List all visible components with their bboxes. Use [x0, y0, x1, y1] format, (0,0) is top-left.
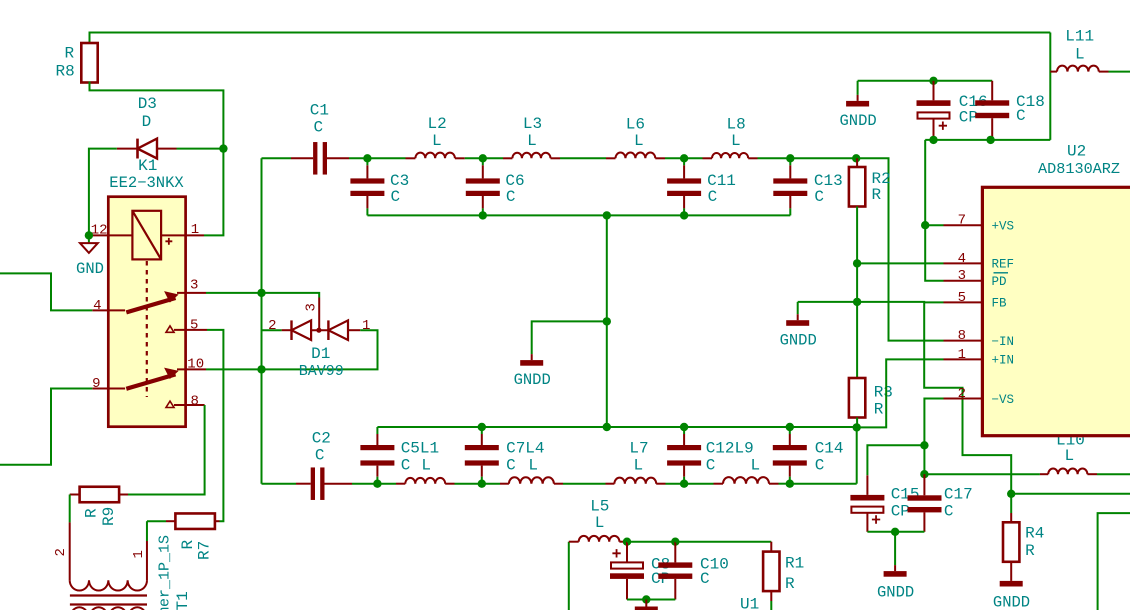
wire R8 bottom to D3 junction [90, 82, 224, 149]
wire FB row right [857, 302, 1011, 494]
svg-text:L: L [527, 132, 537, 150]
wire -VS route [924, 399, 943, 446]
svg-text:C2: C2 [312, 430, 331, 448]
svg-text:L: L [731, 132, 741, 150]
wire +IN route [857, 359, 944, 427]
wire C1 left [262, 157, 292, 159]
wire L1 to C7 node [455, 483, 482, 485]
capacitor C2 [311, 467, 315, 500]
inductor L2 [415, 153, 455, 159]
wire L11 right stub [1099, 71, 1109, 73]
svg-text:R9: R9 [100, 507, 118, 526]
wire input to relay pin 9 [0, 389, 92, 465]
wire R4 row to right edge [1011, 493, 1130, 495]
capacitor C18 [991, 81, 993, 101]
svg-text:GNDD: GNDD [877, 584, 914, 602]
wire mid vertical to GNDD junction [606, 215, 608, 321]
resistor R2 [849, 167, 865, 207]
svg-text:12: 12 [91, 223, 108, 239]
wire relay pin10 to junction [206, 368, 262, 370]
svg-text:+IN: +IN [992, 354, 1015, 368]
junction C11 bottom [680, 211, 688, 219]
capacitor C3 [366, 158, 368, 165]
svg-text:L11: L11 [1065, 28, 1094, 46]
pin 8 −IN of U2 [944, 340, 983, 342]
junction C5 bottom [373, 480, 381, 488]
ic U2 body [982, 187, 1130, 435]
PD overline [994, 272, 1009, 274]
wire R2 bottom [856, 207, 858, 264]
relay pin 4 [92, 309, 125, 311]
svg-text:C: C [314, 119, 324, 137]
ground GNDD under C8 [645, 600, 647, 607]
relay pin 1 [161, 234, 204, 236]
wire C8 C10 bottom [627, 599, 675, 601]
wire C1 right stub [327, 157, 349, 159]
svg-text:C15: C15 [891, 486, 920, 504]
wire top rail from R8 to far right [90, 33, 1051, 44]
svg-text:C: C [708, 188, 718, 206]
wire D3 cathode to GND node [89, 149, 117, 236]
junction C10 top [671, 538, 679, 546]
diode D3 [138, 139, 158, 159]
svg-text:8: 8 [191, 394, 199, 410]
transformer T1 pin 2 [69, 522, 71, 580]
junction C3 top [363, 154, 371, 162]
svg-text:U1: U1 [740, 596, 759, 610]
wire L3 right stub [551, 157, 561, 159]
svg-text:K1: K1 [138, 157, 157, 175]
capacitor C11 [683, 158, 685, 165]
wire D3 right to junction [177, 148, 224, 150]
svg-text:C: C [1016, 107, 1026, 125]
capacitor C13 [789, 158, 791, 165]
junction C18 bottom [986, 136, 994, 144]
wire D1 pin 2 to node column [262, 329, 282, 331]
svg-text:C1: C1 [310, 102, 329, 120]
svg-text:L8: L8 [727, 116, 746, 134]
wire C16 C18 top rail [858, 80, 993, 82]
svg-text:L: L [634, 132, 644, 150]
wire L4 right stub [554, 483, 563, 485]
relay pin 5 [174, 329, 207, 331]
wire node column to C2 [262, 483, 297, 485]
wire R1 top stub [770, 542, 772, 552]
wire junction down to relay pin 1 [204, 149, 223, 236]
wire R7 left stub [166, 520, 175, 522]
junction C17 top [920, 470, 928, 478]
wire C10 to R1 [675, 541, 771, 543]
svg-text:L2: L2 [428, 115, 447, 133]
wire C15 C17 bottom [867, 531, 924, 533]
wire L5 left drop [568, 542, 570, 610]
junction C7 rail [478, 423, 486, 431]
svg-text:7: 7 [958, 213, 966, 229]
svg-text:C: C [944, 503, 954, 521]
pin 5 FB of U2 [944, 301, 983, 303]
svg-text:U2: U2 [1067, 143, 1086, 161]
svg-text:4: 4 [958, 251, 966, 267]
inductor L9 [723, 477, 769, 484]
transformer T1 core [70, 594, 147, 596]
capacitor C12 [683, 427, 685, 434]
D1 pin 3 [318, 298, 320, 331]
inductor L8 [712, 153, 748, 158]
svg-text:C: C [506, 457, 516, 475]
svg-text:GNDD: GNDD [514, 371, 551, 389]
junction C14 rail [786, 423, 794, 431]
wire bottom ladder top rail [377, 426, 856, 428]
wire C1 to C3 node [349, 157, 367, 159]
svg-text:L: L [1075, 46, 1085, 64]
ground GND symbol [88, 235, 90, 243]
wire L10 to right edge [1097, 473, 1130, 475]
svg-text:FB: FB [992, 297, 1008, 311]
relay pin 3 [177, 292, 206, 294]
svg-text:1: 1 [191, 222, 199, 238]
capacitor C17 [923, 474, 925, 495]
wire C2 to C5 node [352, 483, 377, 485]
svg-text:D1: D1 [311, 345, 330, 363]
wire C1 left stub [291, 157, 313, 159]
svg-text:EE2−3NKX: EE2−3NKX [109, 174, 184, 192]
wire R2R3 middle [856, 263, 858, 302]
relay pin 5 triangle marker [166, 326, 174, 332]
svg-text:C: C [315, 447, 325, 465]
junction R2 top [852, 154, 860, 162]
svg-text:C17: C17 [944, 486, 973, 504]
relay pin 9 [92, 388, 125, 390]
junction C11 top [680, 154, 688, 162]
svg-text:REF: REF [992, 258, 1015, 272]
capacitor C5 [376, 427, 378, 434]
wire L2 left stub [406, 157, 416, 159]
svg-text:9: 9 [92, 376, 100, 392]
wire R1 bottom [770, 591, 772, 601]
svg-text:R1: R1 [785, 555, 804, 573]
wire C17 row to L10 [924, 473, 1040, 475]
relay coil plus sign [165, 238, 172, 245]
inductor L5 [579, 536, 620, 542]
junction at pin 10 node [257, 365, 265, 373]
relay coil rectangle [132, 211, 161, 260]
svg-text:3: 3 [304, 303, 320, 311]
svg-text:AD8130ARZ: AD8130ARZ [1038, 160, 1120, 178]
relay dashed actuator line [146, 261, 148, 397]
svg-text:R: R [1025, 542, 1035, 560]
wire L6 to C11 node [665, 157, 684, 159]
wire L1 left stub [396, 483, 405, 485]
svg-text:R7: R7 [196, 541, 214, 560]
svg-text:L: L [528, 457, 538, 475]
wire R2R3 lower [856, 302, 858, 378]
wire GNDD branch [532, 321, 607, 354]
svg-text:2: 2 [53, 548, 69, 556]
svg-text:C: C [815, 457, 825, 475]
junction C8 top [623, 538, 631, 546]
wire D1 pin 1 loop [262, 330, 378, 369]
junction C14 bottom [786, 480, 794, 488]
wire R9 to T1 pin 2 [69, 495, 71, 523]
wire L6 left stub [606, 157, 616, 159]
capacitor C16 polarized [933, 81, 935, 101]
wire -VS lower [923, 445, 925, 474]
capacitor C8 polarized [626, 542, 628, 563]
svg-text:1: 1 [958, 347, 966, 363]
junction mid vertical top [603, 211, 611, 219]
wire top ladder ground rail [367, 214, 790, 216]
svg-text:4: 4 [93, 298, 101, 314]
svg-text:R3: R3 [874, 384, 893, 402]
svg-text:R8: R8 [56, 63, 75, 81]
wire L8 left stub [703, 157, 713, 159]
wire C14 to R3 column [790, 483, 857, 485]
wire T1 pin1 to R7 [146, 521, 148, 541]
ground GNDD right [797, 302, 799, 314]
svg-text:C12L9: C12L9 [706, 440, 754, 458]
relay K1 body EE2-3NKX [108, 197, 185, 427]
wire L4 left stub [500, 483, 509, 485]
ground GNDD top [857, 81, 859, 95]
wire C16 C18 bottom rail [925, 139, 1050, 141]
wire R7 right stub [215, 520, 220, 522]
svg-text:L: L [1065, 447, 1075, 465]
svg-text:BAV99: BAV99 [299, 363, 344, 380]
wire L7 right stub [656, 483, 665, 485]
wire C13 node to R2 node [790, 157, 856, 159]
svg-text:L: L [634, 457, 644, 475]
wire +VS stub [925, 224, 943, 226]
wire pin3 node to D1 pin 3 [262, 293, 320, 298]
wire input to relay pin 4 [0, 273, 92, 310]
svg-text:1: 1 [131, 550, 147, 558]
inductor L10 [1048, 468, 1087, 474]
svg-text:L7: L7 [629, 440, 648, 458]
inductor L3 [512, 153, 550, 159]
svg-text:8: 8 [958, 328, 966, 344]
svg-text:C: C [506, 188, 516, 206]
wire L7 left stub [606, 483, 615, 485]
svg-text:L5: L5 [590, 498, 609, 516]
svg-text:L6: L6 [626, 116, 645, 134]
diode D1 right half [328, 320, 348, 340]
wire L7 to C12 node [666, 483, 685, 485]
wire L10 left stub [1040, 473, 1048, 475]
pin 3 PD of U2 [944, 280, 983, 282]
wire L5 left stub [569, 541, 579, 543]
wire C6 node to L3 [483, 157, 503, 159]
svg-text:L: L [751, 457, 761, 475]
svg-text:GNDD: GNDD [780, 332, 817, 350]
wire relay pin3 to junction [206, 292, 262, 294]
svg-text:L: L [421, 457, 431, 475]
transformer T1 secondary winding [70, 607, 147, 610]
wire L4 to L7 [563, 483, 606, 485]
resistor R7 horizontal [175, 513, 215, 529]
wire C7 to L4 [482, 483, 500, 485]
svg-text:L: L [432, 132, 442, 150]
diode D1 left half [292, 320, 312, 340]
wire L5 right stub [619, 541, 628, 543]
svg-text:GNDD: GNDD [993, 594, 1030, 610]
relay pin 12 [89, 234, 132, 236]
svg-text:R4: R4 [1025, 525, 1044, 543]
junction C13 top [786, 154, 794, 162]
junction GNDD bottom mid [642, 595, 650, 603]
wire L9 left stub [714, 483, 724, 485]
svg-text:R: R [874, 401, 884, 419]
inductor L7 [614, 478, 656, 484]
wire L11 drop [1049, 33, 1051, 140]
junction GNDD C15 [891, 528, 899, 536]
wire C5 to L1 [377, 483, 396, 485]
svg-text:3: 3 [190, 278, 198, 294]
capacitor C6 [482, 158, 484, 165]
junction FB GNDD row [853, 298, 861, 306]
resistor R9 horizontal [80, 487, 120, 503]
svg-text:2: 2 [268, 318, 276, 334]
junction C6 top [479, 154, 487, 162]
svg-text:L: L [595, 514, 605, 532]
svg-text:GNDD: GNDD [839, 112, 876, 130]
pin 2 −VS of U2 [944, 398, 983, 400]
svg-text:R: R [785, 575, 795, 593]
relay pin 8 triangle marker [166, 401, 174, 407]
capacitor C1 [313, 142, 317, 175]
junction R3 bottom [853, 423, 861, 431]
wire L3 left stub [503, 157, 512, 159]
capacitor C10 [674, 542, 676, 563]
svg-text:R: R [82, 508, 100, 518]
wire L8 right stub [748, 157, 757, 159]
wire L11 left stub [1050, 71, 1057, 73]
wire D3 anode right [157, 148, 177, 150]
wire C11 node to L8 [684, 157, 702, 159]
wire REF row [857, 262, 943, 264]
wire L3 to L6 [560, 157, 606, 159]
wire L6 right stub [655, 157, 665, 159]
wire R3 bottom to output rail [856, 427, 858, 483]
wire R2 top stub [856, 158, 858, 167]
svg-text:5: 5 [190, 318, 198, 334]
wire relay pin5 down to R7 [207, 330, 223, 521]
svg-text:5: 5 [958, 290, 966, 306]
wire C15 top row [867, 445, 924, 475]
svg-text:C: C [401, 457, 411, 475]
D1 common node dot [316, 328, 321, 333]
wire rail end down to -IN [856, 158, 943, 340]
svg-text:+VS: +VS [992, 220, 1015, 234]
junction C6 bottom [479, 211, 487, 219]
svg-text:C5L1: C5L1 [401, 440, 439, 458]
svg-text:D3: D3 [138, 95, 157, 113]
wire L9 to C14 node [779, 483, 790, 485]
svg-text:−VS: −VS [992, 393, 1015, 407]
inductor L11 [1057, 66, 1099, 72]
inductor L1 [405, 478, 445, 484]
svg-text:C14: C14 [815, 440, 844, 458]
relay pin 8 [174, 404, 205, 406]
wire FB stub row [924, 301, 943, 303]
svg-text:PD: PD [992, 275, 1007, 289]
wire L8 to C13 node [758, 157, 791, 159]
resistor R8 [81, 43, 97, 83]
svg-text:D: D [142, 113, 152, 131]
junction +VS [921, 221, 929, 229]
ground GNDD mid [531, 353, 533, 355]
svg-text:CP: CP [959, 109, 978, 127]
wire L11 to right edge [1109, 71, 1130, 73]
junction C7 bottom [478, 480, 486, 488]
svg-text:C: C [391, 188, 401, 206]
svg-text:Transformer_1P_1S: Transformer_1P_1S [157, 535, 174, 610]
pin 4 REF of U2 [944, 262, 983, 264]
svg-text:T1: T1 [174, 591, 192, 610]
wire C2 left stub [296, 483, 311, 485]
capacitor C15 polarized [866, 475, 868, 495]
wire R3 bottom [856, 418, 858, 428]
inductor L6 [616, 153, 656, 159]
transformer T1 primary winding [70, 580, 147, 590]
svg-text:2: 2 [958, 386, 966, 402]
ground GNDD under R4 [1010, 562, 1012, 581]
relay pin 10 [177, 368, 206, 370]
junction C15 top row [920, 441, 928, 449]
wire C12 to L9 [684, 483, 713, 485]
wire L2 right stub [455, 157, 465, 159]
wire vertical node column [261, 158, 263, 483]
capacitor C7 [481, 427, 483, 434]
junction REF row [853, 259, 861, 267]
junction at pin 3 node [257, 289, 265, 297]
svg-text:R: R [872, 186, 882, 204]
svg-text:10: 10 [187, 357, 204, 373]
junction C16 top [929, 77, 937, 85]
ground GNDD under C15 [894, 532, 896, 565]
junction at relay pin 12 [85, 231, 93, 239]
resistor R1 [763, 552, 779, 592]
svg-text:C: C [700, 570, 710, 588]
svg-text:C: C [814, 188, 824, 206]
inductor L4 [509, 477, 554, 483]
junction at D3 right [219, 144, 227, 152]
resistor R3 [849, 378, 865, 418]
wire L10 right stub [1087, 473, 1097, 475]
junction GNDD branch [603, 317, 611, 325]
wire relay pin8 down to R9 [128, 405, 205, 495]
svg-text:CP: CP [651, 570, 670, 588]
svg-text:1: 1 [362, 318, 370, 334]
wire bottom right corner [1098, 513, 1130, 610]
wire R4 top stub [1010, 494, 1012, 513]
wire C3 node to L2 [367, 157, 405, 159]
junction mid rail [603, 423, 611, 431]
svg-text:−IN: −IN [992, 335, 1015, 349]
relay switch arm lower [126, 374, 175, 388]
wire L1 right stub [445, 483, 454, 485]
svg-text:R: R [65, 45, 75, 63]
wire R9 right stub [119, 494, 128, 496]
wire L9 right stub [769, 483, 779, 485]
svg-text:R: R [179, 540, 197, 550]
wire C2 right stub [325, 483, 353, 485]
svg-text:3: 3 [958, 268, 966, 284]
wire +VS vertical [925, 140, 943, 281]
junction R4 top [1007, 490, 1015, 498]
capacitor C14 [789, 427, 791, 434]
pin 7 +VS of U2 [944, 224, 983, 226]
svg-text:CP: CP [891, 503, 910, 521]
